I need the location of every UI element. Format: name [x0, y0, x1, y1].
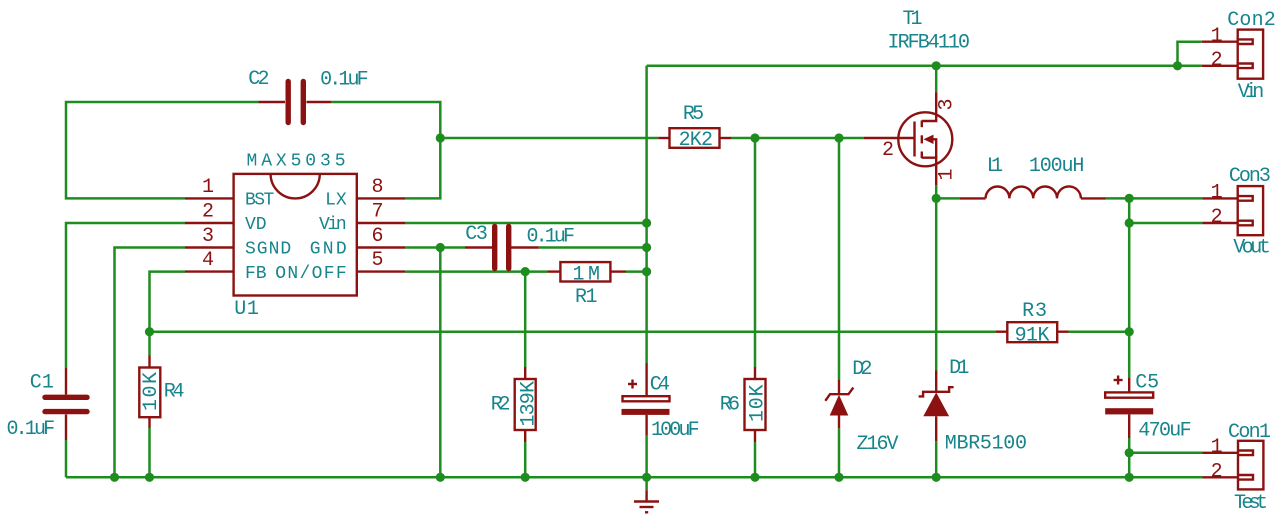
wire Con2 pin1 jog	[1178, 42, 1202, 66]
svg-text:Con3: Con3	[1229, 165, 1271, 188]
ground	[634, 490, 659, 512]
wire R4 bottom	[148, 428, 151, 477]
svg-text:8: 8	[371, 176, 383, 199]
node junction FB-R3-C5	[1125, 327, 1134, 336]
svg-text:R6: R6	[720, 394, 740, 417]
capacitor C1	[45, 368, 87, 440]
diode D1 schottky MBR5100	[919, 371, 954, 442]
svg-text:Con1: Con1	[1228, 421, 1271, 444]
svg-text:2: 2	[1211, 461, 1223, 484]
svg-text:1: 1	[1211, 182, 1223, 205]
svg-text:4: 4	[202, 249, 214, 272]
wire L1 to Vout node	[1106, 197, 1130, 200]
node junction Vin-R1	[642, 267, 651, 276]
wire C2 right to LX	[331, 102, 440, 198]
svg-text:FB: FB	[245, 264, 267, 284]
wire pin7 Vin	[405, 222, 647, 225]
wire D1 bottom	[935, 441, 938, 477]
svg-text:0.1uF: 0.1uF	[320, 69, 369, 92]
resistor R3	[996, 322, 1069, 342]
svg-text:10K: 10K	[747, 385, 770, 423]
wire bottom rail	[66, 476, 1203, 479]
wire gate line from C2 drop	[440, 137, 658, 140]
svg-text:Vin: Vin	[319, 215, 347, 235]
svg-text:1: 1	[936, 168, 959, 180]
wire C5 bottom	[1128, 438, 1131, 477]
svg-text:0.1uF: 0.1uF	[527, 226, 576, 249]
svg-text:100uH: 100uH	[1029, 155, 1085, 178]
svg-text:2: 2	[882, 139, 894, 162]
svg-text:R3: R3	[1022, 300, 1047, 323]
wire Vout node down	[1128, 198, 1131, 378]
wire GND column down	[439, 248, 442, 478]
svg-text:0.1uF: 0.1uF	[7, 418, 56, 441]
svg-text:C2: C2	[248, 68, 269, 91]
svg-text:ON/OFF: ON/OFF	[275, 264, 347, 284]
wire pin6 GND	[405, 246, 465, 249]
connector Con2	[1202, 30, 1263, 79]
svg-text:C4: C4	[650, 373, 670, 396]
connector Con1	[1203, 441, 1264, 490]
svg-text:C1: C1	[30, 371, 54, 394]
wire pin5 ON/OFF to R1	[405, 270, 548, 273]
wire R3 right to C5 column	[1069, 330, 1130, 333]
svg-text:LX: LX	[325, 191, 347, 211]
node junction rail-D2	[834, 473, 843, 482]
node junction rail-C5	[1125, 473, 1134, 482]
node junction rail-D1	[932, 473, 941, 482]
svg-text:470uF: 470uF	[1138, 420, 1191, 443]
node junction gate-D2	[834, 133, 843, 142]
wire C3 right to Vin column	[539, 246, 647, 249]
svg-text:L1: L1	[987, 155, 1003, 178]
svg-text:3: 3	[202, 225, 214, 248]
resistor R1	[548, 262, 627, 281]
wire FB rail	[150, 330, 997, 333]
node junction rail-R4	[145, 473, 154, 482]
connector Con3	[1203, 186, 1264, 235]
capacitor C3	[465, 227, 539, 269]
wire T1 source	[935, 185, 938, 198]
svg-text:Test: Test	[1234, 492, 1268, 515]
node junction gate-C2drop	[436, 133, 445, 142]
wire BST loop top	[66, 102, 259, 198]
svg-text:91K: 91K	[1015, 325, 1050, 348]
op-amp U1 MAX5035 body	[185, 174, 405, 296]
wire C4 bottom to rail	[645, 435, 648, 477]
svg-text:R2: R2	[491, 394, 511, 417]
svg-text:6: 6	[371, 225, 383, 248]
wire Con1 pin1	[1129, 452, 1202, 455]
wire R2 bottom	[524, 442, 527, 477]
transistor Q T1 IRFB4110 mosfet	[864, 92, 953, 185]
svg-text:2K2: 2K2	[679, 129, 713, 152]
wire ground stub	[645, 477, 648, 490]
capacitor C5 polarized	[1105, 376, 1153, 439]
resistor R4	[139, 356, 160, 429]
svg-text:Vout: Vout	[1233, 237, 1271, 260]
wire C1 bottom to ground rail	[65, 440, 68, 477]
node junction Vout-L1	[1125, 194, 1134, 203]
svg-text:T1: T1	[903, 8, 923, 31]
svg-text:D1: D1	[949, 357, 969, 380]
wire VD to C1 top	[66, 223, 185, 368]
wire Vout node to Con3 pin1	[1129, 197, 1202, 200]
resistor R6	[745, 367, 766, 442]
svg-text:Vin: Vin	[1238, 81, 1265, 104]
svg-text:U1: U1	[234, 298, 259, 321]
inductor L1	[960, 186, 1106, 198]
svg-text:10K: 10K	[140, 372, 163, 411]
wire D1 top	[935, 198, 938, 370]
wire R6 bottom	[754, 442, 757, 477]
svg-text:BST: BST	[245, 191, 274, 211]
svg-text:D2: D2	[852, 358, 872, 381]
wire Vin column	[645, 66, 648, 363]
capacitor C4 polarized	[622, 363, 670, 435]
node junction Vin-C3	[642, 243, 651, 252]
node junction rail-SGND	[110, 473, 119, 482]
svg-text:Con2: Con2	[1227, 9, 1276, 32]
svg-text:IRFB4110: IRFB4110	[888, 32, 971, 55]
svg-text:R5: R5	[683, 103, 704, 126]
svg-text:1: 1	[202, 176, 214, 199]
node junction rail-C4	[642, 473, 651, 482]
svg-text:7: 7	[371, 201, 383, 224]
svg-text:1: 1	[1211, 436, 1223, 459]
node junction toprail-drain	[932, 61, 941, 70]
node junction Vin-pin7	[642, 218, 651, 227]
svg-text:C3: C3	[465, 223, 488, 246]
svg-text:5: 5	[371, 249, 383, 272]
wire R6 top	[754, 138, 757, 367]
wire D2 top	[838, 138, 841, 379]
svg-text:SGND: SGND	[245, 240, 291, 260]
wire SGND down	[115, 248, 186, 478]
svg-text:R4: R4	[164, 381, 185, 404]
svg-text:MAX5035: MAX5035	[247, 151, 346, 171]
wire R2 top	[524, 272, 527, 367]
node junction source-D1	[932, 194, 941, 203]
svg-text:1: 1	[1211, 25, 1223, 48]
svg-text:GND: GND	[310, 240, 347, 260]
wire R5 to gate	[731, 137, 864, 140]
wire D2 bottom	[838, 428, 841, 477]
node junction C5-Con1pin1	[1125, 448, 1134, 457]
wire Con3 pin2	[1129, 222, 1202, 225]
svg-text:100uF: 100uF	[651, 419, 700, 442]
node junction gate-R6	[750, 133, 759, 142]
svg-text:2: 2	[202, 201, 214, 224]
wire T1 drain	[935, 66, 938, 92]
svg-text:2: 2	[1211, 49, 1223, 72]
node junction pin6-GNDcol	[436, 243, 445, 252]
node junction toprail-Con2	[1173, 61, 1182, 70]
node junction pin5-R2	[521, 267, 530, 276]
wire top rail Vin	[647, 65, 1202, 68]
node junction Vout-Con3pin2	[1125, 218, 1134, 227]
resistor R2	[515, 367, 536, 442]
svg-text:139K: 139K	[518, 381, 541, 427]
svg-text:2: 2	[1211, 206, 1223, 229]
diode D2 zener	[825, 379, 853, 428]
wire R1 right to Vin column	[626, 270, 647, 273]
wire FB down to R4	[150, 272, 186, 356]
node junction rail-R2	[521, 473, 530, 482]
svg-text:3: 3	[936, 98, 959, 110]
capacitor C2	[259, 82, 332, 123]
wire source to L1	[936, 197, 960, 200]
svg-text:Z16V: Z16V	[857, 433, 899, 456]
node junction rail-R6	[750, 473, 759, 482]
svg-text:R1: R1	[575, 286, 598, 309]
node junction rail-GNDcol	[436, 473, 445, 482]
resistor R5	[658, 128, 731, 148]
node junction FB-R4	[145, 327, 154, 336]
svg-text:C5: C5	[1135, 372, 1159, 395]
svg-text:MBR5100: MBR5100	[945, 433, 1027, 456]
svg-text:VD: VD	[245, 215, 267, 235]
